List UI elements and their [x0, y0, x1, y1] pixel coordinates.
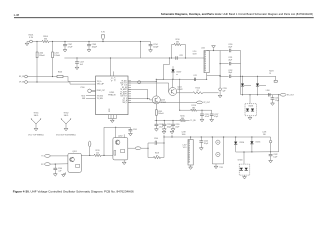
ground below transformer	[215, 164, 217, 166]
wire Q203 collector	[155, 79, 157, 96]
varactor CR207	[172, 66, 174, 69]
svg-text:VCO BOTTOM SHIELD: VCO BOTTOM SHIELD	[56, 134, 77, 136]
resistor R206 block	[57, 75, 63, 77]
wire L204 drop lower	[36, 58, 38, 82]
ground below C220	[172, 126, 174, 129]
header rule	[14, 17, 314, 19]
svg-text:L202: L202	[201, 48, 205, 50]
svg-text:4.7pF: 4.7pF	[68, 47, 74, 49]
transistor Q203	[152, 96, 160, 104]
junction bus rail2	[220, 63, 221, 64]
ground below C227	[211, 115, 213, 119]
wire Q201 out	[81, 154, 94, 156]
svg-text:51: 51	[269, 73, 271, 75]
resistor R210	[172, 44, 175, 46]
svg-text:47pF: 47pF	[175, 126, 179, 128]
ground below C240	[200, 142, 202, 148]
capacitor C219	[163, 121, 165, 125]
capacitor C207	[64, 42, 66, 45]
wire coil L207 top	[190, 137, 192, 140]
wire pin to TP	[128, 82, 169, 84]
Q201 inner marks	[76, 164, 80, 167]
varactor CR205	[251, 137, 253, 141]
svg-text:390: 390	[263, 134, 266, 136]
coil L207 resonator	[188, 140, 193, 166]
svg-text:TR_B+: TR_B+	[97, 81, 102, 83]
test point M201	[138, 81, 141, 84]
svg-text:18pF: 18pF	[228, 46, 232, 48]
svg-text:680: 680	[192, 108, 195, 110]
svg-text:100pF: 100pF	[153, 47, 159, 49]
junction RC loop right	[185, 57, 186, 58]
varactor CR202	[256, 84, 259, 87]
junction L204 to SF wire	[36, 81, 37, 82]
junction link cap	[163, 142, 164, 143]
wire RX_INJ to Q201	[50, 163, 68, 165]
wire IC pin stub top 2	[113, 71, 115, 76]
junction bias 3	[172, 120, 173, 121]
svg-text:xx: xx	[155, 140, 157, 142]
wire rail1	[212, 50, 229, 52]
ground below C209	[88, 46, 90, 50]
junction RC loop left	[171, 57, 172, 58]
ground below C245	[129, 131, 131, 134]
junction bus rail3	[220, 75, 221, 76]
inductor L205	[155, 110, 157, 115]
bus x240 vertical	[240, 51, 242, 95]
svg-text:1pF: 1pF	[223, 91, 226, 93]
svg-text:120nH: 120nH	[39, 55, 45, 57]
wire box feed	[249, 95, 251, 104]
wire buffer rail	[156, 78, 206, 80]
svg-text:Q201: Q201	[72, 151, 76, 153]
svg-text:SF_IN: SF_IN	[19, 76, 25, 78]
svg-text:L210: L210	[193, 51, 197, 53]
capacitor C218	[155, 121, 157, 125]
power flag A	[163, 135, 165, 137]
wire Q204 emitter	[177, 92, 193, 94]
svg-text:47pF: 47pF	[214, 116, 218, 118]
capacitor C217	[76, 58, 78, 62]
wire Q204 base drop	[168, 83, 170, 92]
junction L203 to SF wire	[52, 76, 53, 77]
svg-text:TL_B5: TL_B5	[190, 120, 195, 122]
Q202 inner resistor	[114, 151, 116, 156]
ground at input node	[27, 41, 30, 43]
capacitor C232 series	[228, 75, 230, 78]
junction CR201 top	[242, 76, 243, 77]
svg-text:PREC_OUT: PREC_OUT	[97, 90, 105, 92]
svg-text:120nH: 120nH	[54, 55, 60, 57]
wire Q202 top pin A	[115, 127, 117, 137]
svg-text:Schematic Diagrams, Overlays,: Schematic Diagrams, Overlays, and Parts …	[161, 12, 313, 16]
svg-text:M9642: M9642	[177, 89, 182, 91]
transformer right leg	[223, 137, 225, 164]
junction C217 tap	[76, 57, 77, 58]
svg-text:CR203: CR203	[248, 106, 253, 108]
svg-text:5F_IN: 5F_IN	[19, 82, 25, 84]
svg-text:L206: L206	[266, 90, 270, 92]
resistor R215	[180, 119, 186, 121]
svg-text:CR206: CR206	[238, 160, 243, 162]
resistor R218	[148, 157, 154, 159]
resistor R216	[191, 109, 197, 111]
node E201	[30, 40, 33, 43]
wire L204 drop upper	[36, 42, 38, 53]
svg-text:CR207: CR207	[176, 72, 181, 74]
transistor Q201	[70, 157, 75, 162]
junction C207 tap	[64, 41, 65, 42]
wire pin y81 to Q203	[128, 80, 156, 82]
svg-text:CP_CLK: CP_CLK	[121, 85, 127, 87]
ground below CR206	[244, 175, 246, 177]
svg-text:12pF: 12pF	[273, 157, 277, 159]
wire from E203	[27, 81, 70, 83]
svg-text:SF_B+: SF_B+	[110, 77, 112, 82]
capacitor C214	[150, 42, 152, 45]
svg-text:8.2pF: 8.2pF	[204, 143, 208, 145]
wire IC supply drop	[110, 58, 112, 76]
junction CR202 bottom	[257, 94, 258, 95]
svg-text:CR205: CR205	[255, 141, 260, 143]
off-page RX_OUT	[280, 93, 286, 96]
svg-text:.01uF: .01uF	[205, 116, 209, 118]
wire R214 to bus	[203, 92, 219, 94]
wire CR202 drop	[257, 76, 259, 83]
wire CR201 drop	[242, 76, 244, 83]
wire R215 to label	[185, 120, 189, 122]
resistor R214	[193, 92, 203, 94]
junction bias 2	[164, 120, 165, 121]
svg-text:CP_OUT: CP_OUT	[203, 102, 210, 104]
junction at L204 tap	[36, 41, 37, 42]
wire 9.3V rail main	[49, 41, 151, 43]
wire supply to varactor	[169, 58, 171, 65]
wire pin y89 drop	[128, 88, 148, 90]
wire rail3 right	[231, 75, 241, 77]
ground Q202	[123, 160, 125, 162]
wire rail2	[220, 63, 229, 65]
wire L205 to bias row	[155, 115, 157, 120]
svg-text:TRB_5: TRB_5	[122, 102, 127, 104]
junction base feed	[103, 155, 104, 156]
wire CR204 out	[235, 144, 237, 152]
inductor L203	[52, 52, 54, 58]
capacitor C221 series	[175, 56, 177, 59]
wire superfilter row	[180, 109, 191, 111]
IC U201 FRACN	[96, 76, 128, 115]
svg-text:Y200: Y200	[80, 87, 84, 89]
junction bias 1	[156, 120, 157, 121]
pad E204	[274, 80, 277, 82]
svg-text:51: 51	[197, 90, 199, 92]
svg-text:RX_OUT: RX_OUT	[287, 95, 294, 97]
junction supply tap vco	[169, 57, 170, 58]
junction IC supply tap	[110, 57, 111, 58]
wire rail2 right	[231, 63, 241, 65]
svg-text:RX_BS: RX_BS	[122, 87, 127, 89]
svg-text:T201: T201	[219, 167, 223, 169]
wire R206 to IC pin	[63, 76, 68, 78]
svg-text:330: 330	[44, 39, 47, 41]
wire vertical link	[163, 137, 165, 158]
power flag B	[171, 135, 173, 137]
capacitor C245	[129, 127, 131, 129]
inductor L206 series	[268, 93, 270, 96]
resistor R204	[42, 40, 49, 42]
wire 9.3V rail left	[32, 41, 42, 43]
svg-text:100nH: 100nH	[158, 113, 164, 115]
capacitor C246	[54, 164, 56, 168]
svg-text:TR_SEN: TR_SEN	[97, 98, 103, 100]
junction L209 tap	[89, 155, 90, 156]
wire Q202 top pin B	[123, 134, 125, 137]
transformer left leg	[211, 137, 213, 164]
junction mod node	[270, 151, 271, 152]
junction at L203 tap	[52, 41, 53, 42]
ground below CR203	[249, 116, 251, 118]
svg-text:100pF: 100pF	[92, 47, 98, 49]
wire Q204 collector	[172, 79, 174, 87]
ground below C242	[270, 156, 272, 161]
ground below C217	[76, 63, 78, 67]
svg-text:C221: C221	[179, 55, 183, 57]
svg-text:36pF: 36pF	[228, 72, 232, 74]
svg-text:Figure 4-30. UHF Voltage Cont: Figure 4-30. UHF Voltage Controlled Osci…	[13, 189, 134, 193]
wire CP out	[128, 101, 197, 103]
junction C209 tap	[88, 41, 89, 42]
transformer bottom	[212, 163, 223, 165]
inductor L209	[89, 147, 91, 156]
junction C240 tap	[201, 136, 202, 137]
svg-text:Q202: Q202	[118, 135, 122, 137]
ground Q201	[65, 172, 67, 173]
svg-text:SHLD: SHLD	[34, 115, 39, 117]
junction C246 tap	[55, 164, 56, 165]
svg-text:xx: xx	[176, 74, 178, 76]
ground IC bottom	[108, 118, 116, 120]
off-page CP_OUT	[197, 101, 203, 104]
junction buffer in	[147, 148, 148, 149]
svg-text:.01uF: .01uF	[159, 126, 163, 128]
wire R216 to caps	[197, 109, 212, 111]
junction steering out	[269, 94, 270, 95]
wire coil top to rail1	[207, 50, 212, 52]
svg-text:1-38: 1-38	[14, 13, 20, 17]
ground below C226	[201, 115, 203, 119]
svg-text:9.3V: 9.3V	[29, 37, 34, 39]
svg-text:SHLD: SHLD	[64, 115, 69, 117]
capacitor C227	[211, 110, 213, 114]
svg-text:1000: 1000	[182, 134, 186, 136]
wire to pad	[275, 76, 277, 80]
bead L211 series	[193, 78, 195, 81]
capacitor C226	[201, 110, 203, 114]
svg-text:xx: xx	[156, 155, 158, 157]
svg-text:CR204: CR204	[239, 142, 244, 144]
wire pin to Q203 base	[128, 98, 150, 100]
svg-text:VCO TOP SHIELD: VCO TOP SHIELD	[28, 134, 44, 136]
capacitor C244 series	[148, 142, 154, 144]
junction top rail to filter	[140, 41, 141, 42]
wire link vertical short	[147, 143, 149, 158]
wire rail3 mid	[220, 75, 229, 77]
svg-text:12pF: 12pF	[275, 100, 279, 102]
svg-text:SUP_FLT: SUP_FLT	[120, 96, 127, 98]
svg-text:TR_MOD: TR_MOD	[97, 95, 104, 97]
capacitor C230 series	[228, 49, 230, 52]
capacitor C240	[200, 137, 202, 141]
wire rail3 extension	[241, 75, 276, 77]
transformer winding B	[216, 152, 220, 156]
transistor Q202	[115, 140, 120, 145]
wire oval to link	[141, 147, 148, 149]
svg-text:100pF: 100pF	[167, 126, 172, 128]
wire bias row	[155, 120, 180, 122]
wire rail1 right	[231, 50, 241, 52]
cap C233 on bus	[219, 88, 222, 91]
capacitor C209	[88, 42, 90, 45]
wire steering line	[241, 94, 281, 96]
capacitor C234	[272, 95, 274, 98]
wire RX buffer drop	[278, 95, 280, 152]
ground below C218	[155, 126, 157, 129]
resistor R219	[94, 154, 101, 156]
transistor Q204	[169, 88, 177, 96]
varactor CR201	[241, 84, 244, 87]
varactor CR206b	[245, 168, 248, 171]
coil L202	[204, 51, 209, 73]
wire mod line	[244, 151, 271, 153]
wire L203 drop upper	[52, 42, 54, 53]
wire Q203 emitter	[155, 104, 157, 110]
svg-text:.1uF: .1uF	[58, 170, 61, 172]
svg-text:FRACN: FRACN	[108, 94, 116, 97]
wire 5V rail	[64, 57, 204, 59]
inductor L204	[36, 52, 38, 58]
wire rail drop to 5V line	[140, 42, 142, 59]
varactor CR203a	[246, 109, 249, 112]
junction CR202 top	[257, 76, 258, 77]
svg-text:C245: C245	[133, 129, 137, 131]
wire TX_INJ to Q201	[50, 155, 68, 157]
IC bottom pins	[107, 115, 109, 119]
junction C226 tap	[201, 110, 202, 111]
wire superfilter drop	[179, 79, 181, 110]
IC right pin stubs	[128, 80, 131, 82]
svg-text:680: 680	[181, 118, 184, 120]
wire coil bottom	[206, 73, 208, 80]
transistor box Q201	[68, 153, 81, 172]
varactor CR204	[235, 137, 237, 142]
svg-text:220: 220	[96, 153, 99, 155]
transformer winding A	[216, 140, 220, 144]
wire from E202	[27, 76, 57, 78]
ground below C246	[54, 170, 56, 174]
wire VCO main	[164, 136, 262, 138]
svg-text:24pF: 24pF	[228, 60, 232, 62]
wire base feed	[104, 126, 130, 128]
varactor CR203b	[251, 109, 254, 112]
ground below C214	[150, 46, 152, 50]
off-page TX oval	[135, 147, 141, 150]
capacitor C231 series	[228, 62, 230, 65]
ground above rail1	[213, 48, 215, 50]
capacitor C220	[172, 121, 174, 125]
svg-text:R206: R206	[58, 72, 62, 74]
wire R219 to Q202	[101, 154, 113, 156]
wire base feed drop	[103, 127, 105, 155]
junction CR201 bottom	[242, 94, 243, 95]
parallel RC legs	[171, 45, 173, 59]
varactor box CR203	[245, 104, 257, 116]
capacitor C242	[270, 152, 272, 154]
ground below C234	[272, 99, 274, 103]
svg-text:CP_F: CP_F	[123, 98, 127, 100]
wire CR206 feed	[243, 152, 245, 164]
ground below C219	[163, 126, 165, 129]
svg-text:L211: L211	[193, 75, 197, 77]
wire Q202 out	[128, 147, 135, 149]
bead L208	[262, 136, 270, 138]
varactor CR206a	[240, 168, 243, 171]
ground below L207	[190, 165, 192, 167]
svg-text:680: 680	[176, 42, 179, 44]
transistor box Q202	[113, 138, 128, 160]
wire L203 drop lower	[52, 58, 54, 77]
ground below C233	[219, 91, 221, 96]
bus x220 vertical	[219, 51, 221, 88]
ground below C207	[64, 46, 66, 50]
